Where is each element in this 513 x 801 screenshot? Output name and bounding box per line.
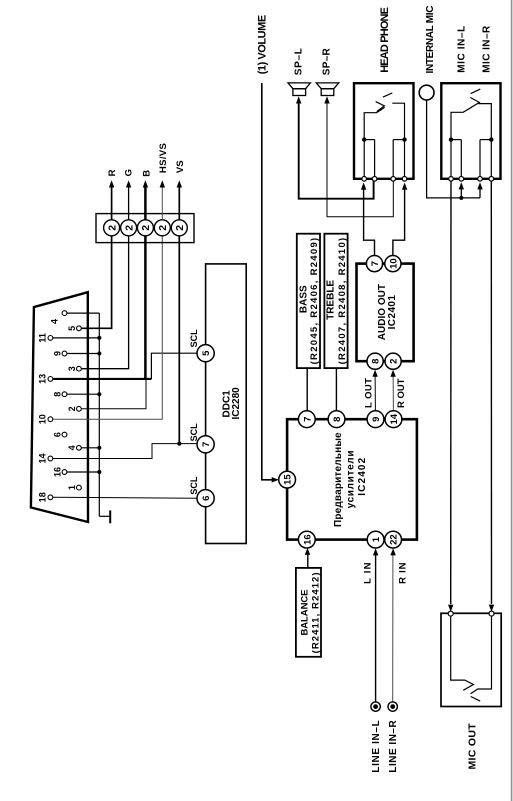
svg-text:SCL: SCL bbox=[189, 476, 199, 495]
wire G arrow line bbox=[128, 185, 130, 220]
preamp pin 15 bbox=[279, 471, 296, 488]
connector J2 box bbox=[96, 214, 194, 243]
wire audio10 to HP pin4 bbox=[393, 187, 405, 256]
connector pins col1 bbox=[48, 336, 53, 500]
wire SP-R to HP pin3 bbox=[327, 102, 393, 217]
svg-text:2: 2 bbox=[67, 406, 77, 411]
svg-text:14: 14 bbox=[389, 413, 400, 424]
HP jack interior right bbox=[392, 103, 404, 176]
jack LINE IN-R bbox=[388, 702, 397, 711]
wire VS riser bbox=[178, 236, 180, 444]
svg-text:SCL: SCL bbox=[189, 329, 199, 348]
svg-text:LINE IN–R: LINE IN–R bbox=[388, 720, 399, 773]
wire SP-L to HP pin2 bbox=[299, 102, 374, 199]
svg-text:Предварительные: Предварительные bbox=[333, 432, 344, 527]
svg-text:10: 10 bbox=[38, 414, 48, 424]
IC preamp IC2402 box bbox=[287, 419, 417, 539]
svg-text:HEAD PHONE: HEAD PHONE bbox=[379, 7, 391, 73]
arrow G bbox=[126, 180, 131, 187]
preamp pin 7 bbox=[298, 411, 315, 428]
svg-text:4: 4 bbox=[50, 319, 60, 324]
arrow preamp pin22 bbox=[390, 548, 395, 555]
preamp pin 14 bbox=[385, 411, 402, 428]
ground bbox=[99, 515, 110, 517]
junction bus-pin16 bbox=[97, 470, 101, 474]
arrow preamp pin16 bbox=[305, 548, 310, 555]
svg-text:2: 2 bbox=[106, 225, 118, 231]
MIC IN pins bbox=[449, 177, 494, 182]
svg-text:MIC IN–L: MIC IN–L bbox=[456, 26, 467, 73]
pin labels bbox=[38, 319, 77, 502]
audio pin 2 bbox=[385, 353, 401, 369]
wire TREBLE to preamp pin8 bbox=[335, 368, 337, 415]
J2 circle B bbox=[137, 220, 153, 236]
wire MIC IN pin1 to MIC OUT bbox=[450, 181, 452, 604]
svg-text:7: 7 bbox=[201, 442, 212, 447]
svg-text:(R2411, R2412): (R2411, R2412) bbox=[311, 572, 322, 653]
svg-text:MIC IN–R: MIC IN–R bbox=[482, 25, 493, 73]
preamp pin 9 bbox=[367, 411, 384, 428]
arrow VS bbox=[177, 180, 182, 187]
connector MIC OUT box bbox=[441, 613, 501, 706]
connector P1 D-sub shell bbox=[31, 292, 88, 522]
arrow preamp pin8 bbox=[334, 410, 339, 417]
svg-text:6: 6 bbox=[52, 432, 62, 437]
arrow MIC OUT pin2 bbox=[489, 605, 494, 612]
connector pins col3 bbox=[77, 326, 82, 490]
svg-text:1: 1 bbox=[371, 536, 382, 542]
svg-text:SCL: SCL bbox=[189, 423, 199, 442]
arrow into pin15 bbox=[272, 477, 279, 482]
IC DDC1 IC2280 box bbox=[206, 264, 247, 544]
arrow micin pin3 bbox=[477, 182, 482, 189]
svg-text:16: 16 bbox=[302, 534, 313, 545]
jack LINE IN-L bbox=[371, 702, 380, 711]
svg-text:8: 8 bbox=[332, 417, 343, 422]
svg-text:2: 2 bbox=[389, 359, 400, 364]
wire pin5 to R bbox=[81, 236, 111, 328]
svg-text:IC2401: IC2401 bbox=[387, 295, 398, 330]
svg-text:3: 3 bbox=[67, 366, 77, 371]
svg-text:5: 5 bbox=[201, 350, 212, 356]
svg-text:BASS: BASS bbox=[299, 285, 310, 313]
junction mic wire bbox=[459, 196, 463, 200]
wire audio8 to preamp9 L OUT bbox=[374, 374, 376, 411]
svg-text:R OUT: R OUT bbox=[396, 378, 407, 408]
arrow preamp pin1 bbox=[373, 548, 378, 555]
svg-text:5: 5 bbox=[67, 326, 77, 331]
speaker SP-R bbox=[316, 83, 338, 89]
wire internal mic to MIC IN pins bbox=[427, 100, 480, 198]
svg-text:SP–L: SP–L bbox=[294, 48, 305, 75]
junction bus-pin11 bbox=[97, 336, 101, 340]
arrow SP-R bbox=[324, 96, 329, 103]
audio pin 10 bbox=[385, 256, 401, 272]
arrow HP pin4 bbox=[402, 183, 407, 190]
junction bus-pin8 bbox=[97, 392, 101, 396]
MIC OUT jack interior bbox=[451, 616, 474, 690]
DDC pin 5 bbox=[197, 345, 214, 362]
svg-text:18: 18 bbox=[38, 492, 48, 502]
J2 pin texts 2 bbox=[106, 225, 186, 231]
arrow micin pin2 bbox=[459, 182, 464, 189]
resistor block TREBLE box bbox=[324, 234, 347, 368]
svg-text:9: 9 bbox=[52, 351, 62, 356]
svg-text:(R2407, R2408, R2410): (R2407, R2408, R2410) bbox=[337, 238, 348, 365]
svg-text:4: 4 bbox=[67, 445, 77, 450]
svg-text:R: R bbox=[107, 169, 118, 176]
svg-text:IC2402: IC2402 bbox=[357, 457, 368, 495]
wire BASS to preamp pin7 bbox=[306, 368, 308, 415]
wire preamp1 to LINE IN-L bbox=[375, 553, 377, 702]
wire HS/VS arrow line bbox=[161, 185, 163, 220]
svg-text:TREBLE: TREBLE bbox=[326, 280, 337, 320]
svg-text:6: 6 bbox=[201, 496, 212, 501]
connector pins col2 bbox=[62, 311, 67, 475]
preamp pin 8 bbox=[328, 411, 345, 428]
arrow audio pin2 bbox=[390, 370, 395, 377]
audio pin 8 bbox=[367, 353, 383, 369]
wire pin11 to bus bbox=[53, 337, 100, 339]
svg-text:1: 1 bbox=[67, 485, 77, 490]
svg-text:16: 16 bbox=[52, 467, 62, 477]
svg-text:INTERNAL MIC: INTERNAL MIC bbox=[425, 6, 436, 74]
preamp pin 1 bbox=[367, 531, 384, 548]
HP pins bbox=[362, 177, 407, 182]
svg-text:L OUT: L OUT bbox=[363, 378, 374, 408]
svg-text:L IN: L IN bbox=[362, 562, 373, 584]
arrow preamp pin7 bbox=[304, 410, 309, 417]
wire BALANCE to preamp pin16 bbox=[307, 553, 309, 568]
connector MIC IN box bbox=[441, 83, 500, 179]
arrow HP pin1 bbox=[361, 183, 366, 190]
DDC pin 6 bbox=[197, 490, 214, 507]
MIC OUT pins bbox=[448, 611, 494, 616]
J2 circle VS bbox=[171, 220, 187, 236]
svg-text:IC2280: IC2280 bbox=[231, 387, 242, 420]
junction bus-pin9 bbox=[97, 351, 101, 355]
wire pin13 row bbox=[53, 378, 151, 380]
svg-text:усилители: усилители bbox=[346, 451, 357, 509]
arrow MIC OUT pin1 bbox=[448, 605, 453, 612]
speaker SP-L bbox=[288, 83, 310, 89]
svg-text:8: 8 bbox=[52, 392, 62, 397]
svg-text:22: 22 bbox=[389, 534, 400, 545]
mic INTERNAL MIC symbol bbox=[419, 85, 434, 100]
wire pin4b to bus bbox=[81, 447, 99, 449]
arrow SP-L bbox=[296, 96, 301, 103]
svg-text:13: 13 bbox=[38, 374, 48, 384]
svg-text:2: 2 bbox=[123, 225, 135, 231]
arrow R bbox=[109, 180, 114, 187]
arrow B bbox=[143, 180, 148, 187]
wire pin4 to bus bbox=[67, 312, 99, 314]
HP jack interior left bbox=[364, 107, 384, 176]
svg-text:G: G bbox=[124, 169, 135, 176]
svg-text:(1) VOLUME: (1) VOLUME bbox=[257, 15, 269, 75]
wire pin16 to bus bbox=[67, 471, 99, 473]
svg-text:8: 8 bbox=[371, 359, 382, 364]
wire B riser bbox=[144, 236, 147, 379]
svg-text:LINE IN–L: LINE IN–L bbox=[371, 720, 382, 772]
junction bus-pin4b bbox=[97, 446, 101, 450]
wire audio2 to preamp14 R OUT bbox=[392, 374, 394, 411]
svg-text:B: B bbox=[141, 170, 152, 177]
wire pin10 to HS/VS bbox=[53, 236, 163, 419]
svg-text:2: 2 bbox=[140, 225, 152, 231]
connector HEAD PHONE box bbox=[354, 83, 414, 179]
J2 circle G bbox=[121, 220, 137, 236]
IC AUDIO OUT IC2401 box bbox=[357, 264, 414, 362]
wire MIC IN pin4 to MIC OUT bbox=[490, 181, 492, 604]
svg-text:HS/VS: HS/VS bbox=[158, 143, 169, 173]
J2 circle R bbox=[104, 220, 120, 236]
MIC IN jack interior left bbox=[451, 107, 472, 176]
arrow HS/VS bbox=[160, 180, 165, 187]
wire SCL5 riser bbox=[151, 353, 196, 379]
svg-text:MIC OUT: MIC OUT bbox=[466, 723, 478, 770]
preamp pin 16 bbox=[298, 531, 315, 548]
svg-text:R IN: R IN bbox=[397, 562, 408, 584]
arrow audio pin8 bbox=[372, 370, 377, 377]
svg-text:14: 14 bbox=[38, 453, 48, 463]
svg-text:BALANCE: BALANCE bbox=[299, 590, 310, 636]
wire VS arrow line bbox=[178, 185, 180, 220]
svg-text:10: 10 bbox=[389, 258, 400, 269]
resistor block BASS box bbox=[297, 234, 320, 368]
svg-text:7: 7 bbox=[302, 417, 313, 422]
wire preamp22 to LINE IN-R bbox=[392, 553, 394, 702]
svg-text:2: 2 bbox=[174, 225, 186, 231]
wire pin14 to SCL7 bbox=[53, 444, 197, 459]
wire volume bbox=[262, 83, 277, 480]
wire R arrow line bbox=[111, 185, 113, 220]
svg-text:VS: VS bbox=[175, 160, 186, 173]
wire pin9 to bus bbox=[67, 353, 99, 355]
svg-text:15: 15 bbox=[283, 474, 294, 485]
audio pin 7 bbox=[366, 256, 382, 272]
preamp pin 22 bbox=[385, 531, 402, 548]
svg-text:11: 11 bbox=[38, 333, 48, 343]
wire pin8 to bus bbox=[67, 393, 99, 395]
junction VS-SCL7 bbox=[177, 442, 181, 446]
wire B arrow line bbox=[144, 185, 147, 220]
DDC pin 7 bbox=[197, 436, 214, 453]
page edge line bbox=[511, 0, 513, 801]
svg-text:SP–R: SP–R bbox=[322, 47, 333, 75]
wire audio7 to HP pin1 bbox=[364, 187, 375, 256]
svg-text:2: 2 bbox=[157, 225, 169, 231]
svg-text:9: 9 bbox=[371, 417, 382, 422]
J2 circle HS bbox=[154, 220, 170, 236]
wire pin18 to SCL6 bbox=[53, 496, 197, 499]
ground bus wire bbox=[98, 313, 100, 516]
wire pin3 to G bbox=[81, 236, 128, 369]
wire pin2 jog bbox=[81, 379, 146, 409]
resistor block BALANCE box bbox=[296, 568, 321, 657]
svg-text:7: 7 bbox=[370, 261, 381, 266]
MIC IN jack interior right bbox=[478, 104, 491, 177]
svg-text:(R2045, R2406, R2409): (R2045, R2406, R2409) bbox=[309, 238, 320, 365]
